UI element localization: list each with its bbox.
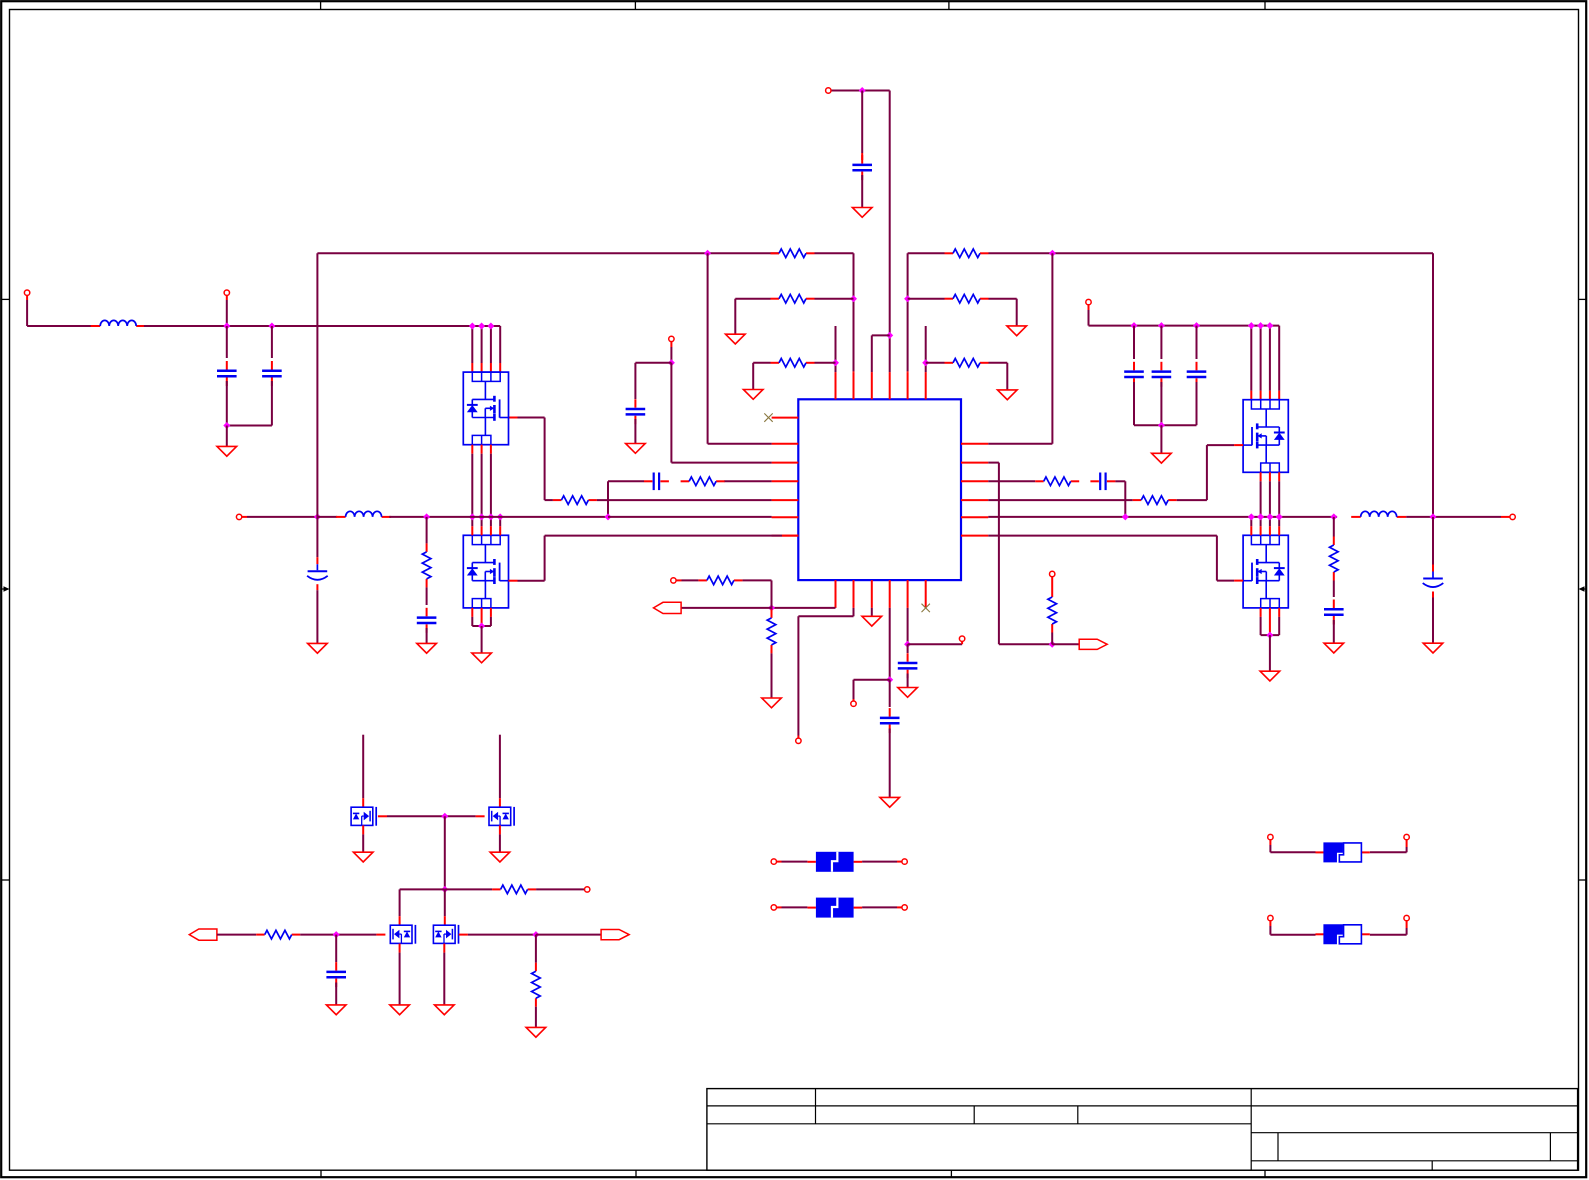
wire B4 left branch <box>854 679 890 681</box>
wire C9 lower <box>1160 382 1162 425</box>
wire C13 to ground <box>1432 598 1434 644</box>
port P1 top supply <box>826 88 831 93</box>
port tag PGOOD left <box>654 602 682 613</box>
ground below C12 <box>1324 643 1344 653</box>
junction bus3 col a <box>1248 322 1255 329</box>
wire C15 to ground <box>907 674 909 688</box>
port P14 fuse1 left <box>771 859 776 864</box>
capacitor C13 output polarized <box>1432 565 1434 572</box>
wire bus2 right segment <box>908 252 945 254</box>
wire bus3 column b <box>1260 326 1262 391</box>
port P17 fuse2 right <box>902 905 907 910</box>
wire B5 cap branch <box>907 644 909 653</box>
capacitor C5 comp <box>644 480 653 482</box>
wire port P3 down to bus <box>226 295 228 300</box>
port P19 jumper1 right <box>1404 834 1409 839</box>
wire B1 to arrow port <box>681 607 771 609</box>
ground below R5 <box>743 390 763 400</box>
wire to cap C4 <box>635 362 671 364</box>
wire bus2-left-end vertical <box>316 253 318 517</box>
wire R9 to C7 <box>426 587 428 605</box>
IC U1 left pins <box>772 417 799 419</box>
wire cap C1 lower lead <box>861 175 863 208</box>
no-connect X on IC pin L1 <box>764 413 772 421</box>
wire Q1 source columns to rail b <box>481 445 483 454</box>
wire fuse1 left <box>777 861 782 863</box>
inductor L3 phase right <box>1351 516 1361 518</box>
right border mid arrow <box>1584 588 1587 590</box>
junction rail right col b <box>1257 513 1264 520</box>
wire IC R3 to R10 <box>988 480 1035 482</box>
wire rt port to resistor <box>1051 577 1053 589</box>
wire bus3 cap b lead <box>1160 326 1162 359</box>
resistor R16 driver out <box>492 888 501 890</box>
wire B5 right branch <box>908 643 963 645</box>
wire rail to Q2 drain column a <box>471 517 473 526</box>
transistor Q3 high-side right <box>1243 400 1288 473</box>
port P4 enable <box>669 336 674 341</box>
jumper J1 <box>1315 851 1323 853</box>
resistor R10 comp right <box>1035 480 1044 482</box>
capacitor C2 input <box>226 361 228 370</box>
wire M2 drain stub <box>499 735 501 799</box>
capacitor C1 top decoupling <box>861 155 863 164</box>
resistor R4 to ground <box>945 298 954 300</box>
port P3 input sense <box>224 290 229 295</box>
wire R15 to node <box>1051 633 1053 645</box>
resistor R9 snubber <box>426 543 428 552</box>
port tag IN left <box>189 929 217 940</box>
wire R6 right lead corner <box>989 362 1008 364</box>
wire C10 lower <box>1196 382 1198 425</box>
junction bus2 at L2 drop <box>704 250 711 257</box>
wire L3 net to IC <box>670 363 672 463</box>
capacitor C6 polarized <box>316 557 318 564</box>
port P21 jumper2 right <box>1404 915 1409 920</box>
title block <box>707 1089 1578 1171</box>
capacitor C3 input <box>271 361 273 370</box>
capacitor C4 <box>634 399 636 408</box>
resistor R14 divider <box>771 609 773 618</box>
wire IC R2 net <box>988 462 999 464</box>
junction rail col d <box>497 513 504 520</box>
capacitor C7 snubber <box>426 608 428 617</box>
wire Q3 source columns to rail a <box>1260 472 1262 481</box>
port tag OUT right <box>601 930 629 940</box>
ground below Q4 <box>1260 671 1280 681</box>
resistor R12 snubber right <box>1333 537 1335 546</box>
junction T1/R5 tie <box>832 359 839 366</box>
resistor R7 comp <box>681 480 690 482</box>
junction rail right snub <box>1330 513 1337 520</box>
capacitor C12 snubber right <box>1333 600 1335 609</box>
junction rail right col c <box>1266 513 1273 520</box>
wire rail to Q4 drain c <box>1269 517 1271 526</box>
wire R6 left lead <box>926 362 945 364</box>
capacitor C16 input filter <box>335 962 337 971</box>
wire IC B5 net <box>907 608 909 644</box>
wire bus1 column a <box>471 326 473 363</box>
port P12 rt <box>1050 571 1055 576</box>
wire M1 source to ground <box>362 825 364 834</box>
wire Q1 source columns to rail a <box>471 445 473 454</box>
wire R8 to IC pin L5 <box>597 499 772 501</box>
wire IC pin T6 vertical <box>925 326 927 372</box>
wire cap C1 upper lead <box>861 91 863 154</box>
wire bus2 to junction R1corner <box>989 252 1434 254</box>
junction B4 node <box>886 676 893 683</box>
wire bus1 column b <box>481 326 483 363</box>
junction driver mid <box>441 886 448 893</box>
ground below M3 <box>390 1005 410 1015</box>
inductor L2 phase left <box>336 516 346 518</box>
wire rail to IC pin L6 <box>608 516 772 518</box>
fuse F1 <box>807 861 815 863</box>
ground below input caps <box>217 446 237 456</box>
wire M1 gate lead <box>378 815 387 817</box>
resistor R18 pulldown <box>535 963 537 972</box>
ground below C1 <box>852 208 872 218</box>
transistor M3 <box>390 925 415 944</box>
wire rail to Q2 drain column b <box>481 517 483 526</box>
wire bus3 column a <box>1250 326 1252 391</box>
wire C14 to ground <box>889 729 891 798</box>
wire bus3 cap a lead <box>1133 326 1135 359</box>
wire IC B3 to ground <box>871 608 873 616</box>
wire C11 to rail corner <box>1115 480 1125 482</box>
wire Q3 source columns to rail c <box>1278 472 1280 481</box>
junction bus3 col b <box>1257 322 1264 329</box>
transistor Q1 high-side left <box>463 372 508 445</box>
ground below R14 <box>762 698 782 708</box>
junction bus3 cap b <box>1158 322 1165 329</box>
wire IC R4 to R11 <box>988 499 1132 501</box>
wire R2 node to arrow <box>1052 643 1079 645</box>
wire IC R6 to Q4 gate <box>988 535 1217 537</box>
junction output pulldown <box>532 931 539 938</box>
wire R2 left lead corner <box>735 298 770 300</box>
wire M3 source to ground <box>399 944 401 953</box>
junction B5 node <box>904 641 911 648</box>
wire input cap branch <box>335 935 337 962</box>
resistor R5 to ground <box>771 362 780 364</box>
ground below right caps <box>1152 453 1172 463</box>
wire R5 right lead <box>815 362 836 364</box>
wire C12 to ground <box>1333 620 1335 643</box>
wire R14 to ground <box>771 653 773 698</box>
junction bus3 cap a <box>1131 322 1138 329</box>
junction rail RC branch <box>423 513 430 520</box>
wire RC branch upper <box>426 517 428 544</box>
transistor M2 <box>489 807 514 826</box>
wire C2 upper lead <box>226 326 228 358</box>
wire driver mid to M3 drain <box>400 888 445 890</box>
wire right caps to ground <box>1160 425 1162 453</box>
left border mid arrow <box>1 588 4 590</box>
junction gate tie <box>441 813 448 820</box>
wire M4 gate lead <box>459 934 468 936</box>
wire C3 lower lead <box>271 381 273 426</box>
wire jumper1 right <box>1370 851 1407 853</box>
wire IC B2 net <box>853 608 855 616</box>
wire pulldown branch <box>535 935 537 963</box>
IC U1 bottom pins <box>835 580 837 608</box>
wire rail to Q2 drain column d <box>499 517 501 526</box>
wire port P6 down <box>1088 305 1090 310</box>
wire IC R1 net <box>988 443 1052 445</box>
wire bus2 corner down to IC pin T2 <box>853 253 855 371</box>
resistor R6 to ground <box>945 362 954 364</box>
transistor M4 <box>433 925 458 944</box>
resistor R13 pullup <box>698 579 707 581</box>
wire R5 left lead corner <box>753 362 770 364</box>
wire IC B4 net <box>889 608 891 680</box>
junction rail col a <box>469 513 476 520</box>
wire IC pin T3 jog <box>871 335 873 372</box>
wire IC pin T1 vertical <box>835 326 837 372</box>
junction Q4 source common <box>1266 632 1273 639</box>
junction rail right col d <box>1276 513 1283 520</box>
wire fuse2 right <box>862 906 897 908</box>
wire bus1 column c <box>490 326 492 363</box>
wire C16 to ground <box>335 983 337 1005</box>
ground below Q2 <box>472 653 492 663</box>
ground below M1 <box>353 852 373 862</box>
resistor R2 to ground <box>771 298 780 300</box>
wire rail to Q4 drain a <box>1250 517 1252 526</box>
wire rail to inductor <box>317 516 337 518</box>
wire cap C4 to ground <box>634 419 636 444</box>
capacitor C14 <box>889 708 891 717</box>
wire R17 to M3 gate <box>300 934 336 936</box>
transistor Q2 low-side left <box>463 535 508 608</box>
wire Q2 source to ground <box>481 626 483 653</box>
junction L3 net <box>668 359 675 366</box>
wire M1 drain stub <box>362 735 364 799</box>
wire C3 upper lead <box>271 326 273 358</box>
wire L2 net vertical <box>707 253 709 443</box>
wire M2 gate lead <box>445 815 476 817</box>
ground below R18 <box>526 1027 546 1037</box>
port P16 fuse2 left <box>771 905 776 910</box>
ground below C7 <box>417 643 437 653</box>
wire top port down to IC pin T4 <box>889 91 891 336</box>
wire input port down <box>26 295 28 300</box>
wire C2 lower lead <box>226 381 228 426</box>
wire rail to Q4 drain d <box>1278 517 1280 526</box>
wire input bus to inductor <box>27 325 92 327</box>
junction B1 node <box>768 604 775 611</box>
wire Q2 source pins down c <box>490 608 492 617</box>
wire B1 down branch <box>771 608 773 610</box>
wire R4 left lead <box>908 298 945 300</box>
junction right caps common <box>1158 422 1165 429</box>
junction bus2 at IC R1 drop <box>1049 250 1056 257</box>
ground below M2 <box>490 852 510 862</box>
resistor R11 gate right <box>1133 499 1142 501</box>
wire R2 right lead <box>815 298 854 300</box>
wire Q4 source to ground <box>1269 635 1271 671</box>
port P9 sense <box>796 738 801 743</box>
junction input RC <box>333 931 340 938</box>
junction Q2 source common <box>478 623 485 630</box>
junction rail polarized cap <box>314 513 321 520</box>
wire R18 to ground <box>535 1007 537 1028</box>
wire bus1 corner column d <box>472 325 500 327</box>
port P6 bias right <box>1086 299 1091 304</box>
wire R13 to port <box>682 579 699 581</box>
wire Q4 source pins down a <box>1260 608 1262 617</box>
junction bus1 col a <box>469 323 476 330</box>
wire Q4 source pins down c <box>1278 608 1280 617</box>
wire top port to cap junction <box>831 90 890 92</box>
wire R4 right lead corner <box>989 298 1017 300</box>
wire bus3 column c <box>1269 326 1271 391</box>
wire rail to Q2 drain column c <box>490 517 492 526</box>
junction rail col c <box>487 513 494 520</box>
right border zone ticks <box>1579 298 1587 300</box>
wire jumper1 left <box>1269 840 1271 845</box>
wire jumper2 right <box>1370 934 1407 936</box>
wire IC B1 net <box>772 607 836 609</box>
top border zone ticks <box>320 1 322 9</box>
wire rail port to junction <box>242 516 247 518</box>
wire snubber branch <box>1333 517 1335 537</box>
wire gate junction to R16 <box>445 888 492 890</box>
capacitor C9 <box>1160 362 1162 371</box>
junction IC T3/T4 tie <box>886 332 893 339</box>
wire C7 to ground <box>426 628 428 643</box>
junction bus1 at C2 <box>223 323 230 330</box>
wire input bus segment <box>144 325 472 327</box>
port P11 vref <box>959 636 964 641</box>
wire output cap branch <box>1432 517 1434 565</box>
junction rail col b <box>478 513 485 520</box>
wire Q2 source pins down b <box>481 608 483 626</box>
wire polarized cap C6 top lead <box>316 517 318 557</box>
capacitor C15 <box>907 653 909 662</box>
junction T6/R6 tie <box>922 359 929 366</box>
resistor R8 gate <box>553 499 562 501</box>
junction bus1 col b <box>478 323 485 330</box>
wire bus2 to corner T2 <box>815 252 854 254</box>
resistor R3 bus2 right <box>945 252 954 254</box>
wire gate tie down <box>444 816 446 889</box>
port P2 input left <box>24 290 29 295</box>
IC U1 right pins <box>961 443 988 445</box>
wire rail to Q4 drain b <box>1260 517 1262 526</box>
wire to input caps ground <box>226 426 228 447</box>
junction rail output cap <box>1430 513 1437 520</box>
wire driver mid to M4 drain <box>444 889 446 916</box>
wire M2 source to ground <box>499 825 501 834</box>
wire port P4 down <box>670 342 672 347</box>
wire C8 lower <box>1133 382 1135 425</box>
wire Q1 source columns to rail c <box>490 445 492 454</box>
ground below B3 <box>862 616 882 626</box>
wire C5 to rail corner <box>608 480 644 482</box>
junction top cap tap <box>859 87 866 94</box>
ground below R6 <box>998 390 1018 400</box>
capacitor C11 comp right <box>1090 480 1099 482</box>
port P8 pullup <box>671 578 676 583</box>
wire Q1 gate to R8 <box>509 417 518 419</box>
wire M4 source to ground <box>443 944 445 953</box>
transistor M1 <box>351 807 376 826</box>
transistor Q4 low-side right <box>1243 535 1288 608</box>
ground below C13 <box>1423 643 1443 653</box>
wire IC pin L4 to R7 <box>724 480 772 482</box>
wire Q2 gate to IC pin L7 <box>509 580 518 582</box>
ground below C14 <box>880 797 900 807</box>
resistor R17 input <box>256 934 265 936</box>
capacitor C8 <box>1133 362 1135 371</box>
capacitor C10 <box>1196 362 1198 371</box>
wire fuse2 left <box>777 906 782 908</box>
port P20 jumper2 left <box>1268 915 1273 920</box>
junction rail at RC drop <box>605 513 612 520</box>
port P10 ss <box>851 701 856 706</box>
junction T2/R2 tie <box>850 295 857 302</box>
junction bus3 cap c <box>1193 322 1200 329</box>
wire to arrow OUT <box>536 934 601 936</box>
ground below C16 <box>326 1005 346 1015</box>
port tag SYNC right <box>1079 639 1107 649</box>
wire rail right segment <box>988 516 1337 518</box>
wire bus2 right end down <box>1432 253 1434 517</box>
wire Q3 source columns to rail b <box>1269 472 1271 481</box>
port P18 jumper1 left <box>1268 834 1273 839</box>
resistor R15 rt <box>1051 589 1053 598</box>
wire bus3 cap c lead <box>1196 326 1198 359</box>
wire rail inductor to out <box>1406 516 1501 518</box>
port P15 fuse1 right <box>902 859 907 864</box>
wire C6 to ground <box>316 590 318 643</box>
fuse F2 <box>807 907 815 909</box>
junction rail right col a <box>1248 513 1255 520</box>
junction T5/R4 tie <box>904 295 911 302</box>
ground below C15 <box>898 688 918 698</box>
wire R11 to Q3 gate <box>1177 499 1207 501</box>
ground below M4 <box>435 1005 455 1015</box>
IC U1 top pins <box>835 372 837 399</box>
ground below R2 <box>726 334 746 344</box>
port P5 switch left <box>236 514 241 519</box>
junction bus1 col c <box>487 323 494 330</box>
wire Q4 source pins down b <box>1269 608 1271 635</box>
inductor L1 input filter <box>91 325 101 327</box>
wire R12 to C12 <box>1333 581 1335 598</box>
jumper J2 <box>1315 933 1323 935</box>
IC U1 body <box>798 399 961 580</box>
junction rail right RC <box>1122 513 1129 520</box>
wire Q2 source pins down a <box>471 608 473 617</box>
junction bus3 col c <box>1266 322 1273 329</box>
junction R2 node <box>1049 641 1056 648</box>
wire B1 up branch <box>771 580 773 608</box>
wire rail inductor to columns <box>389 516 608 518</box>
wire B4 cap branch <box>889 680 891 707</box>
junction bus1 at C3 <box>268 323 275 330</box>
wire bus2 right segment corner <box>907 253 909 371</box>
wire jumper2 left <box>1269 921 1271 926</box>
wire fuse1 right <box>862 861 897 863</box>
wire R16 to port <box>536 888 584 890</box>
bottom border zone ticks <box>320 1170 322 1177</box>
wire bus3 corner column d <box>1251 325 1279 327</box>
junction C2/C3 common <box>223 422 230 429</box>
left border zone ticks <box>1 298 9 300</box>
